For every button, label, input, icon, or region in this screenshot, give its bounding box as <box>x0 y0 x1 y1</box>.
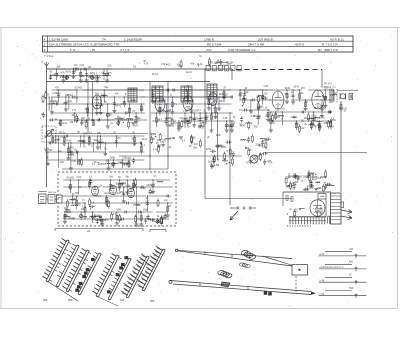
junction node <box>127 179 128 180</box>
junction node <box>311 120 312 121</box>
svg-text:3R4 T 0 RR: 3R4 T 0 RR <box>248 43 265 47</box>
wire stub <box>299 208 305 210</box>
resistor <box>157 147 159 152</box>
svg-text:2¼: 2¼ <box>348 247 354 251</box>
capacitor <box>124 112 126 115</box>
resistor <box>214 157 216 162</box>
rod 1 to drum connector <box>263 256 293 265</box>
resistor <box>171 119 173 124</box>
capacitor <box>92 215 94 218</box>
svg-text:2M2: 2M2 <box>265 116 270 118</box>
junction node <box>51 96 52 97</box>
rectifier top cap box <box>318 194 326 200</box>
resistor <box>101 219 103 224</box>
junction node <box>81 211 82 212</box>
wire drop <box>223 90 225 98</box>
wire drop <box>152 180 154 192</box>
wire drop <box>157 219 159 224</box>
junction node <box>156 112 157 113</box>
junction node <box>122 159 123 160</box>
junction node <box>120 162 121 163</box>
wire drop <box>92 120 94 126</box>
svg-text:AZ41: AZ41 <box>206 148 212 151</box>
wire drop <box>65 97 67 109</box>
ground <box>157 144 161 146</box>
spring detail below rod 1 <box>239 263 244 266</box>
wire tone control drop <box>217 112 219 160</box>
junction node <box>110 179 111 180</box>
junction node <box>259 145 260 146</box>
junction node <box>159 103 160 104</box>
capacitor <box>263 97 265 100</box>
capacitor <box>115 140 118 142</box>
junction node <box>313 111 314 112</box>
junction node <box>211 103 212 104</box>
resistor <box>320 209 322 214</box>
junction node <box>66 75 67 76</box>
resistor <box>243 98 245 103</box>
svg-text:ECH42: ECH42 <box>98 164 106 166</box>
resistor <box>135 217 137 222</box>
junction node <box>191 103 192 104</box>
detector extra parts <box>239 95 268 130</box>
wire stub <box>315 181 320 183</box>
capacitor <box>138 211 140 214</box>
capacitor <box>261 141 264 143</box>
svg-text:0,5M: 0,5M <box>327 122 332 124</box>
ground <box>139 223 143 225</box>
resistor <box>135 180 137 185</box>
wire rail segment <box>269 120 318 122</box>
junction node <box>59 123 60 124</box>
wire drop <box>70 143 72 168</box>
wire drop <box>87 104 89 116</box>
wire oscillator link <box>80 142 132 144</box>
tube V1 mixer <box>92 95 101 109</box>
wire drop <box>144 219 146 224</box>
capacitor <box>328 111 330 114</box>
junction node <box>118 119 119 120</box>
junction node <box>49 96 50 97</box>
dropper resistor a <box>286 196 288 201</box>
capacitor <box>247 138 250 140</box>
ground <box>151 191 155 193</box>
svg-text:- 70: - 70 <box>90 48 96 52</box>
wire vertical riser b <box>167 82 169 170</box>
wire drop <box>96 76 98 81</box>
wire drop <box>86 69 88 80</box>
junction node <box>260 154 261 155</box>
wire rail segment <box>92 202 174 204</box>
tube V8 osc a <box>92 186 99 196</box>
svg-text:0,02: 0,02 <box>300 128 305 130</box>
printed board 911 exploded view <box>142 249 163 290</box>
wire drop <box>184 113 186 128</box>
svg-text:AZ41: AZ41 <box>94 77 100 80</box>
wire drop <box>78 180 80 194</box>
junction node <box>173 138 174 139</box>
resistor <box>257 104 259 109</box>
junction node <box>113 159 114 160</box>
resistor <box>64 214 66 219</box>
resistor <box>259 155 261 160</box>
junction node <box>223 89 224 90</box>
wire drop <box>295 121 297 130</box>
ferrite rod antenna dashed box <box>42 126 56 142</box>
junction node <box>325 89 326 90</box>
svg-text:t2: t2 <box>349 273 352 277</box>
junction node <box>184 112 185 113</box>
junction node <box>141 211 142 212</box>
capacitor <box>83 68 85 71</box>
svg-text:1M: 1M <box>88 67 91 69</box>
wire osc top link <box>47 133 148 135</box>
svg-text:c 51: c 51 <box>320 293 325 296</box>
capacitor <box>210 164 213 166</box>
svg-text:2M2: 2M2 <box>286 186 291 188</box>
resistor <box>258 97 260 102</box>
junction node <box>129 103 130 104</box>
resistor <box>134 137 136 142</box>
junction node <box>229 162 230 163</box>
capacitor <box>48 142 50 145</box>
svg-text:AZ41: AZ41 <box>293 86 299 89</box>
ground <box>161 144 165 146</box>
ground <box>131 122 135 124</box>
junction node <box>74 112 75 113</box>
wire drop <box>218 97 220 108</box>
wire drop <box>60 120 62 126</box>
ground <box>225 129 229 131</box>
IF transformer T2 <box>152 86 163 102</box>
wire rail <box>63 179 170 181</box>
wire drop <box>140 143 142 155</box>
capacitor <box>85 73 88 75</box>
wire rail segment <box>271 89 302 91</box>
mixer lower parts <box>55 114 139 128</box>
wire stub <box>115 118 124 120</box>
wire rail <box>49 159 145 161</box>
coil <box>165 118 171 119</box>
title block index column line <box>47 36 49 52</box>
ground <box>135 223 139 225</box>
loudspeaker magnet <box>349 93 353 100</box>
junction node <box>47 151 48 152</box>
junction node <box>275 111 276 112</box>
svg-text:0,05: 0,05 <box>67 212 72 214</box>
wire drop <box>128 160 130 168</box>
junction node <box>93 142 94 143</box>
junction node <box>64 135 65 136</box>
coil <box>94 77 100 78</box>
svg-text:EL41: EL41 <box>62 123 68 125</box>
smoothing capacitor pair b <box>307 175 310 177</box>
wire drop <box>321 100 323 116</box>
resistor <box>45 93 47 98</box>
ground <box>120 182 124 184</box>
resistor <box>128 162 130 167</box>
wire drop <box>116 212 118 223</box>
capacitor <box>305 188 307 191</box>
svg-text:7 1 5oo: 7 1 5oo <box>44 54 54 58</box>
svg-text:1M: 1M <box>102 97 105 99</box>
junction node <box>96 96 97 97</box>
svg-text:0,5M: 0,5M <box>65 210 70 212</box>
capacitor <box>141 186 143 189</box>
ground <box>320 115 324 117</box>
junction node <box>119 179 120 180</box>
wire rail <box>52 112 145 114</box>
capacitor <box>219 60 222 62</box>
trimmer <box>106 114 109 117</box>
switch series capacitor c <box>248 207 250 210</box>
resistor <box>180 62 182 67</box>
junction node <box>136 112 137 113</box>
resistor <box>119 216 121 221</box>
resistor <box>294 211 296 216</box>
bus end labels <box>208 58 233 68</box>
svg-text:0 2R 30 030RR0 1 0: 0 2R 30 030RR0 1 0 <box>228 48 256 52</box>
tuner unit internals <box>62 176 174 227</box>
resistor <box>140 106 142 111</box>
capacitor <box>99 217 102 219</box>
ground <box>303 108 307 110</box>
wire stub <box>291 116 298 118</box>
wire drop <box>67 143 69 158</box>
svg-text:0,05: 0,05 <box>71 161 76 163</box>
wire drop <box>136 187 138 224</box>
aerial socket block a <box>39 194 47 204</box>
ground <box>222 97 226 99</box>
capacitor <box>211 150 213 153</box>
junction node <box>242 105 243 106</box>
printed board 901 exploded view <box>56 245 77 286</box>
wire drop <box>156 113 158 127</box>
capacitor <box>75 151 77 154</box>
svg-text:1M: 1M <box>140 109 143 111</box>
wire IF strip rail <box>56 89 268 91</box>
wire drop <box>52 136 54 143</box>
detector stage <box>238 86 271 125</box>
capacitor <box>124 211 126 214</box>
svg-text:1M: 1M <box>70 122 73 124</box>
capacitor <box>90 205 92 208</box>
junction node <box>63 75 64 76</box>
ground <box>46 162 50 164</box>
junction node <box>107 68 108 69</box>
capacitor <box>149 190 152 192</box>
band indicator lamp row <box>206 65 210 70</box>
resistor <box>108 202 110 207</box>
trimmer <box>261 96 264 99</box>
junction node <box>116 211 117 212</box>
resistor <box>156 118 158 123</box>
wire drop <box>286 90 288 101</box>
capacitor <box>186 121 189 123</box>
svg-text:4 7 1 0: 4 7 1 0 <box>120 48 130 52</box>
capacitor <box>96 220 99 222</box>
junction node <box>229 142 230 143</box>
wire drop <box>55 136 57 144</box>
resistor <box>106 197 108 202</box>
wire drop <box>270 112 272 130</box>
svg-text:0,5M: 0,5M <box>59 76 64 78</box>
coil <box>71 205 77 206</box>
resistor <box>310 182 312 187</box>
wire rail <box>44 135 144 137</box>
svg-text:220p: 220p <box>216 135 222 137</box>
wire socket link <box>46 198 48 200</box>
junction node <box>152 89 153 90</box>
capacitor <box>249 159 252 161</box>
rod 1 tick a <box>204 251 206 254</box>
smoothing capacitor pair a <box>288 175 291 177</box>
junction node <box>296 120 297 121</box>
wire drop <box>215 104 217 117</box>
pointer rod 1 end eyelet <box>175 249 178 252</box>
title block row separator 1 <box>43 40 354 42</box>
tension spring on rod 2 <box>217 270 224 276</box>
svg-text:0M1 5L0: 0M1 5L0 <box>48 192 57 194</box>
resistor <box>76 201 78 206</box>
svg-text:EF41: EF41 <box>240 126 246 128</box>
capacitor <box>193 117 196 119</box>
tuning indicator lamp <box>250 155 258 163</box>
wire rail segment <box>101 103 145 105</box>
svg-text:4a 12: 4a 12 <box>186 72 192 74</box>
resistor <box>89 182 91 187</box>
wire drop <box>292 90 294 102</box>
svg-text:0,02: 0,02 <box>80 65 85 67</box>
svg-text:T4: T4 <box>102 37 106 41</box>
capacitor <box>212 159 215 161</box>
wire drop <box>57 136 59 168</box>
wire drop <box>115 136 117 147</box>
wire drop <box>80 136 82 147</box>
resistor <box>184 118 186 123</box>
wire AVC line <box>119 155 242 157</box>
junction node <box>152 179 153 180</box>
tube V7 rectifier AZ41 <box>310 200 325 216</box>
ground <box>103 152 107 154</box>
capacitor <box>150 218 152 221</box>
svg-text:EF41: EF41 <box>67 102 73 104</box>
wire rail segment <box>291 99 332 101</box>
wire rail <box>238 89 271 91</box>
ground <box>50 111 54 113</box>
wire drop <box>66 76 68 81</box>
resistor <box>89 200 91 205</box>
wire drop <box>63 136 65 143</box>
audio output stage <box>269 86 338 133</box>
coil <box>157 181 163 182</box>
wire rail segment <box>63 186 100 188</box>
tension spring on rod 1 <box>241 249 249 255</box>
junction node <box>293 89 294 90</box>
coil <box>320 177 326 178</box>
junction node <box>101 218 102 219</box>
pointer carriage on rod 2 <box>221 282 230 287</box>
capacitor <box>103 73 106 75</box>
wire rail segment <box>47 103 95 105</box>
power mid parts <box>286 180 335 192</box>
wire drop <box>257 110 259 125</box>
ground <box>122 200 126 202</box>
resistor <box>199 141 201 146</box>
wire drop <box>103 90 105 103</box>
wire drop <box>76 90 78 103</box>
junction node <box>329 184 330 185</box>
printed board 904 exploded view <box>96 255 117 296</box>
coil <box>240 140 246 141</box>
resistor <box>309 176 311 181</box>
resistor <box>223 92 225 97</box>
svg-text:AZ41: AZ41 <box>116 209 122 212</box>
svg-text:AZ41: AZ41 <box>219 100 225 103</box>
extra labels above IF band <box>133 61 172 68</box>
resistor <box>66 201 68 206</box>
resistor <box>128 122 130 127</box>
junction node <box>268 109 269 110</box>
wire drop <box>190 104 192 120</box>
junction node <box>155 136 156 137</box>
junction node <box>114 96 115 97</box>
junction node <box>305 99 306 100</box>
capacitor <box>109 183 112 185</box>
resistor <box>116 215 118 220</box>
capacitor <box>42 113 45 115</box>
capacitor <box>199 118 202 120</box>
junction node <box>107 103 108 104</box>
node junction top bus <box>204 68 205 69</box>
capacitor <box>223 159 225 162</box>
dashed alignment line <box>295 276 297 292</box>
resistor <box>224 154 226 159</box>
ground <box>105 202 109 204</box>
capacitor <box>293 185 296 187</box>
tube V2 IF amp <box>155 97 165 112</box>
junction node <box>324 182 325 183</box>
resistor <box>181 122 183 127</box>
capacitor <box>216 145 218 148</box>
junction node <box>52 135 53 136</box>
svg-text:ECH42: ECH42 <box>254 116 262 118</box>
capacitor <box>76 118 79 120</box>
wire drop <box>96 97 98 113</box>
svg-text:ECH42: ECH42 <box>45 150 53 152</box>
tube V5 AF driver <box>272 91 284 109</box>
ground <box>69 167 73 169</box>
resistor <box>215 108 217 113</box>
ground <box>166 214 170 216</box>
junction node <box>97 135 98 136</box>
wire rail segment <box>77 68 112 70</box>
wire lower rail <box>62 168 168 170</box>
wire mixer cage left <box>87 82 89 134</box>
junction node <box>84 202 85 203</box>
wire drop <box>91 76 93 81</box>
trimmer <box>80 215 83 218</box>
wire supply line to power unit <box>205 198 292 200</box>
capacitor <box>72 96 74 99</box>
ground <box>186 119 190 121</box>
power filter parts <box>285 170 331 193</box>
wire second bus <box>47 81 210 83</box>
switch series capacitor a <box>236 207 238 210</box>
svg-text:AZ41: AZ41 <box>66 71 72 74</box>
svg-text:Mx: Mx <box>349 260 353 264</box>
junction node <box>198 65 199 66</box>
